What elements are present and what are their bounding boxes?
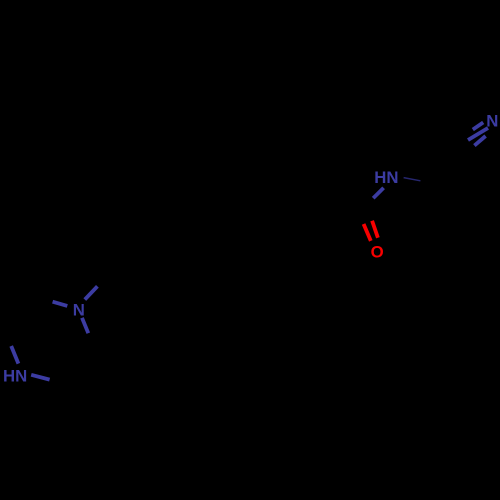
svg-text:N: N [73, 301, 85, 320]
svg-text:O: O [371, 243, 384, 262]
svg-text:HN: HN [3, 367, 27, 386]
svg-text:N: N [486, 111, 498, 130]
svg-text:HN: HN [374, 168, 398, 187]
